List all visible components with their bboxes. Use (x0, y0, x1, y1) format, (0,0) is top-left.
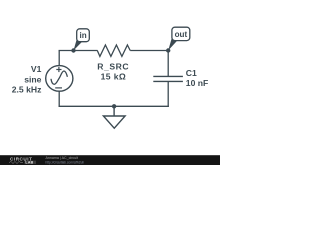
svg-text:http://circuitlab.com/c/fk2uh: http://circuitlab.com/c/fk2uh (46, 160, 85, 164)
node in flag (71, 29, 89, 53)
svg-text:10 nF: 10 nF (186, 78, 208, 88)
svg-text:V1: V1 (31, 64, 42, 74)
wire top horizontal left (59, 50, 98, 52)
resistor R_SRC (97, 45, 130, 56)
capacitor C1 (153, 76, 183, 81)
label R_SRC value (97, 62, 129, 82)
wire V1 bottom lead (58, 91, 60, 107)
wire capacitor top lead (167, 51, 169, 77)
voltage source V1 (46, 66, 73, 92)
ground (103, 104, 125, 128)
label C1 value (186, 68, 208, 88)
wire V1 top lead (58, 51, 60, 66)
svg-text:out: out (175, 30, 188, 39)
svg-text:Annama | AC_circuit: Annama | AC_circuit (46, 156, 79, 160)
svg-text:15 kΩ: 15 kΩ (101, 71, 127, 81)
wire top horizontal right (130, 50, 169, 52)
watermark logo CircuitLab (9, 157, 36, 165)
label V1 value (12, 64, 42, 95)
wire bottom horizontal (59, 105, 169, 107)
node out flag (166, 27, 190, 53)
svg-text:R_SRC: R_SRC (97, 62, 129, 72)
wire capacitor bottom lead (167, 81, 169, 107)
svg-text:in: in (79, 31, 86, 40)
watermark bar (0, 155, 220, 165)
svg-text:2.5 kHz: 2.5 kHz (12, 85, 42, 95)
svg-text:C1: C1 (186, 68, 197, 78)
svg-text:LAB: LAB (25, 161, 33, 165)
watermark text (46, 156, 85, 164)
svg-text:sine: sine (24, 74, 41, 84)
